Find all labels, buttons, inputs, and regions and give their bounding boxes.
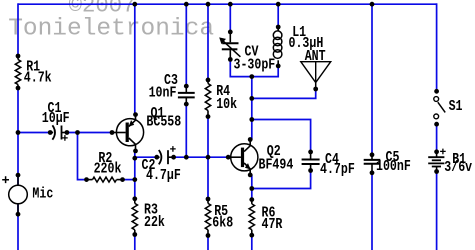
- wire R5 bottom to edge: [207, 236, 209, 250]
- resistor R2: [93, 177, 117, 182]
- node C2 net / C3 col: [184, 155, 189, 160]
- wire C2 net (collector to Q2 base): [135, 156, 157, 158]
- wire R2 branch down: [78, 133, 87, 180]
- svg-text:Tonieletronica: Tonieletronica: [8, 16, 214, 43]
- node collector col / R2: [132, 177, 137, 182]
- svg-text:BF494: BF494: [259, 156, 294, 173]
- svg-text:220k: 220k: [94, 160, 122, 177]
- svg-text:47R: 47R: [262, 216, 283, 233]
- transistor Q1 BC558: [116, 119, 143, 146]
- svg-text:3/6v: 3/6v: [444, 159, 472, 176]
- wire left column lower (Mic to bottom): [17, 204, 19, 250]
- capacitor C3: [184, 84, 189, 89]
- node Q1 base / R2 branch: [75, 130, 80, 135]
- wire R2 to collector column: [123, 179, 135, 181]
- node C4 top tap: [249, 117, 254, 122]
- svg-text:6k8: 6k8: [212, 214, 233, 231]
- svg-text:100nF: 100nF: [376, 158, 411, 175]
- wire C3 column upper: [185, 4, 187, 86]
- node rail/C5: [370, 2, 375, 7]
- resistor R1: [15, 60, 20, 85]
- wire B1 bottom to edge: [436, 172, 438, 250]
- wire top V+ rail: [18, 3, 437, 5]
- wire C5 column upper: [371, 4, 373, 155]
- wire mic/C1 branch: [18, 132, 50, 134]
- capacitor C1: [48, 130, 53, 135]
- wire R5 column upper: [207, 157, 209, 199]
- wire CV column from rail: [229, 4, 231, 32]
- resistor R5: [205, 203, 210, 229]
- wire Q2 emitter to R6: [251, 175, 253, 200]
- resistor R4: [205, 84, 210, 111]
- node left col / C1 branch: [16, 130, 21, 135]
- wire Q1 emitter to rail: [134, 4, 136, 114]
- antenna ANT: [301, 62, 331, 83]
- wire L1 column from rail: [277, 4, 279, 27]
- resistor R6: [249, 204, 254, 230]
- switch S1: [434, 89, 439, 94]
- wire R6 bottom to edge: [251, 235, 253, 250]
- node rail/CV: [228, 2, 233, 7]
- node tank junction CV-L1: [249, 74, 254, 79]
- microphone Mic: [16, 173, 21, 178]
- resistor R3: [132, 203, 137, 229]
- trimmer capacitor CV: [228, 30, 233, 35]
- node emitter / C4 bottom: [249, 186, 254, 191]
- wire left column upper (rail to R1): [17, 3, 19, 56]
- svg-text:3-30pF: 3-30pF: [234, 56, 276, 73]
- wire CV bottom to junction: [230, 59, 252, 76]
- wire C1 to Q1 base: [67, 132, 112, 134]
- node rail/R4: [206, 2, 211, 7]
- wire C5 column lower: [371, 173, 373, 250]
- svg-text:4.7µF: 4.7µF: [146, 167, 181, 184]
- node rail/C3: [184, 2, 189, 7]
- wire C4 top branch: [252, 120, 311, 152]
- svg-text:Mic: Mic: [32, 185, 53, 202]
- wire R4 column upper: [207, 4, 209, 80]
- wire C4 bottom branch: [252, 171, 311, 189]
- svg-text:S1: S1: [449, 98, 463, 115]
- capacitor C4: [308, 150, 313, 155]
- node rail/L1: [276, 2, 281, 7]
- wire R4 column lower: [207, 117, 209, 158]
- node antenna tap: [249, 96, 254, 101]
- transistor Q2 BF494: [231, 144, 258, 171]
- svg-text:ANT: ANT: [305, 48, 326, 65]
- node C2 net / R4-R5 col: [206, 155, 211, 160]
- wire left column mid (R1 to Mic): [17, 88, 19, 186]
- wire C3 column lower: [185, 104, 187, 157]
- wire L1 bottom to junction: [252, 66, 278, 77]
- svg-text:10nF: 10nF: [149, 84, 177, 101]
- wire R3 bottom to edge: [134, 235, 136, 250]
- node collector / C2 branch: [132, 156, 137, 161]
- wire S1 to B1: [436, 124, 438, 152]
- capacitor C5: [370, 152, 375, 157]
- battery B1 3/6v: [434, 149, 439, 154]
- wire antenna branch: [252, 89, 316, 98]
- svg-text:4.7k: 4.7k: [24, 69, 52, 86]
- svg-text:BC558: BC558: [146, 113, 181, 130]
- node rail/Q1 emitter: [132, 2, 137, 7]
- capacitor C2: [154, 155, 159, 160]
- svg-text:10k: 10k: [216, 96, 237, 113]
- wire Q1 collector column to R3: [134, 151, 136, 199]
- svg-text:10µF: 10µF: [42, 110, 70, 127]
- svg-text:4.7pF: 4.7pF: [320, 161, 355, 178]
- svg-text:22k: 22k: [144, 214, 165, 231]
- wire right column upper (rail to S1): [436, 3, 438, 91]
- wire tank to Q2 collector: [251, 77, 253, 140]
- inductor L1: [276, 25, 281, 30]
